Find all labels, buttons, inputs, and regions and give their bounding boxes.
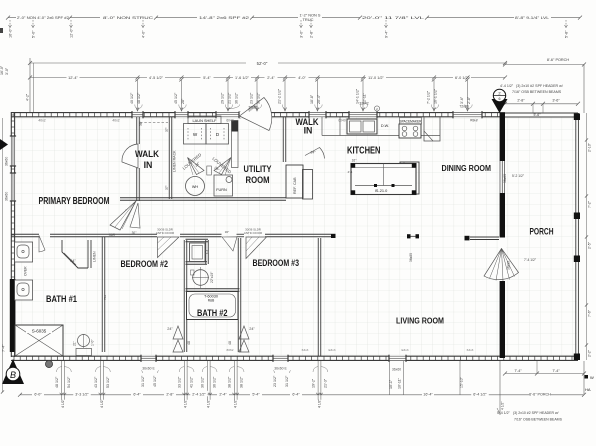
bath2 tub surround xyxy=(186,288,240,290)
kitchen counter top run xyxy=(322,135,440,137)
svg-text:45 1/2": 45 1/2" xyxy=(153,375,157,387)
window in right wall 36x60 xyxy=(499,161,506,193)
svg-text:36 1/2": 36 1/2" xyxy=(213,376,217,388)
wall studs top xyxy=(14,113,498,117)
svg-text:8062: 8062 xyxy=(227,348,234,352)
svg-text:21 1/2": 21 1/2" xyxy=(228,92,232,104)
left arrow marker xyxy=(0,139,8,150)
wall: bedroom3 / living room xyxy=(317,238,319,356)
svg-text:6'-4": 6'-4" xyxy=(292,392,300,396)
svg-text:PORCH: PORCH xyxy=(530,227,554,237)
svg-text:4'-0": 4'-0" xyxy=(142,30,146,38)
svg-text:2'-8": 2'-8" xyxy=(517,99,525,103)
dim row2: 52ft overall xyxy=(30,62,505,64)
svg-text:6040: 6040 xyxy=(226,119,234,123)
svg-text:6'-6" PORCH: 6'-6" PORCH xyxy=(529,392,551,396)
svg-text:2'-4": 2'-4" xyxy=(267,76,275,80)
window top wall 216-240 xyxy=(216,112,240,118)
svg-text:5'-4": 5'-4" xyxy=(252,392,260,396)
svg-text:4 1/2": 4 1/2" xyxy=(207,398,211,408)
dim row1: header sizes xyxy=(8,17,580,19)
bath1 shower S-6035 xyxy=(15,325,63,356)
kitchen sink xyxy=(347,119,377,134)
svg-text:63x3: 63x3 xyxy=(302,348,309,352)
svg-text:21": 21" xyxy=(73,340,77,346)
svg-text:2'-8": 2'-8" xyxy=(310,30,314,38)
svg-text:29 1/2": 29 1/2" xyxy=(220,92,224,104)
section marker B (bottom left) xyxy=(2,359,24,384)
svg-text:IN: IN xyxy=(144,160,153,170)
svg-text:2'-8": 2'-8" xyxy=(166,392,174,396)
svg-text:(3) 2x10 #2 SPF HEADER w/: (3) 2x10 #2 SPF HEADER w/ xyxy=(516,84,563,88)
svg-text:2'-10": 2'-10" xyxy=(588,142,592,152)
svg-text:72x80: 72x80 xyxy=(459,105,468,109)
svg-text:6: 6 xyxy=(499,97,501,101)
svg-text:REF. CAB: REF. CAB xyxy=(293,177,297,194)
wall: bottom exterior xyxy=(11,356,578,360)
svg-text:E3x3: E3x3 xyxy=(401,348,408,352)
svg-text:S-6035: S-6035 xyxy=(32,329,47,334)
furnace xyxy=(214,175,233,196)
beam blocks at living/dining xyxy=(407,234,411,238)
kitchen island IS-21.0 xyxy=(351,164,416,195)
svg-text:2'-8": 2'-8" xyxy=(467,96,471,104)
wall: bedroom2 / bath2 xyxy=(183,240,185,352)
svg-text:KITCHEN: KITCHEN xyxy=(347,146,381,157)
svg-text:7'-4 1/2": 7'-4 1/2" xyxy=(524,258,537,262)
svg-text:36x60: 36x60 xyxy=(5,192,9,201)
svg-text:21'-3": 21'-3" xyxy=(324,378,328,388)
svg-text:12'-4": 12'-4" xyxy=(68,76,78,80)
svg-text:36x60: 36x60 xyxy=(392,368,401,372)
svg-text:37": 37" xyxy=(165,185,169,190)
top extension lines xyxy=(137,80,139,111)
ref cab xyxy=(286,165,303,198)
svg-text:7'-4": 7'-4" xyxy=(514,369,522,373)
door swing: walk-in closet 30in xyxy=(122,144,138,168)
svg-text:21'-2 1/2": 21'-2 1/2" xyxy=(277,88,281,104)
bottom extension pairs xyxy=(61,361,63,400)
bath1 vanity sinks xyxy=(15,242,33,262)
svg-text:LINEN RACK: LINEN RACK xyxy=(173,150,177,172)
door opening right wall to porch xyxy=(499,238,506,282)
svg-text:IS-21.0: IS-21.0 xyxy=(375,188,388,193)
svg-text:BEDROOM #3: BEDROOM #3 xyxy=(253,258,300,268)
svg-text:2'-4": 2'-4" xyxy=(219,392,227,396)
bottom main dim line xyxy=(20,394,584,396)
svg-text:4'-2": 4'-2" xyxy=(26,93,30,101)
svg-text:38 1/2": 38 1/2" xyxy=(228,376,232,388)
svg-text:3'-3 1/2": 3'-3 1/2" xyxy=(75,392,89,396)
window bottom wall 389-406 xyxy=(389,355,406,361)
svg-text:16'-1 1/2": 16'-1 1/2" xyxy=(434,88,438,104)
svg-text:7/16" OSB BETWEEN BEAMS: 7/16" OSB BETWEEN BEAMS xyxy=(514,418,563,422)
svg-text:WALK: WALK xyxy=(135,149,160,159)
svg-text:8'-0" NON STRUC: 8'-0" NON STRUC xyxy=(103,16,154,20)
svg-text:28": 28" xyxy=(181,98,185,104)
wall: porch top beam xyxy=(505,112,578,114)
svg-text:52'-0": 52'-0" xyxy=(257,61,268,66)
window top wall 132-143 xyxy=(132,112,143,118)
window top wall 453-482 xyxy=(453,112,482,118)
svg-text:7'-6": 7'-6" xyxy=(588,309,592,317)
svg-text:24": 24" xyxy=(70,259,76,263)
svg-text:24": 24" xyxy=(311,151,317,155)
wall stub to right wall with cap xyxy=(470,236,499,238)
wall: below walk-in & utility (hall north wall) xyxy=(120,197,286,199)
svg-text:11'-0 1/2": 11'-0 1/2" xyxy=(368,76,384,80)
svg-text:24": 24" xyxy=(167,327,173,331)
svg-text:ANTIC DOOR: ANTIC DOOR xyxy=(156,231,174,235)
window top wall 175-188 xyxy=(175,112,188,118)
wall: primary bedroom / walk-in closet xyxy=(136,117,138,144)
svg-text:3'-0": 3'-0" xyxy=(300,30,304,38)
window bottom wall 141-156 xyxy=(141,355,156,361)
svg-text:36x80: 36x80 xyxy=(507,261,511,270)
svg-text:4 1/2": 4 1/2" xyxy=(234,398,238,408)
svg-text:10'-1": 10'-1" xyxy=(389,379,393,389)
svg-text:R&B: R&B xyxy=(208,299,215,303)
floor grid xyxy=(13,117,577,356)
slider door bedroom3 xyxy=(246,237,267,259)
svg-text:HA: HA xyxy=(585,387,591,392)
svg-text:15'-10": 15'-10" xyxy=(460,376,464,388)
water heater xyxy=(186,177,205,196)
wall: walk-in / laundry xyxy=(168,117,170,199)
walk-in shelf (dashed) xyxy=(140,122,168,124)
svg-text:W: W xyxy=(193,132,198,137)
svg-text:10'-11": 10'-11" xyxy=(398,377,402,389)
cabinet next to ref cab xyxy=(303,170,313,200)
svg-text:31 1/2": 31 1/2" xyxy=(141,375,145,387)
svg-text:40x2: 40x2 xyxy=(38,119,45,123)
svg-text:(3) 2x10 #2 SPF HEADER w/: (3) 2x10 #2 SPF HEADER w/ xyxy=(513,411,559,415)
svg-text:WH: WH xyxy=(192,185,199,189)
bath2 tub T-60030 xyxy=(187,292,239,320)
door swing: living room to porch xyxy=(484,249,519,280)
svg-text:3'-6": 3'-6" xyxy=(460,96,464,104)
svg-text:36x80: 36x80 xyxy=(248,106,257,110)
svg-text:33 1/2": 33 1/2" xyxy=(178,376,182,388)
svg-text:31 1/2": 31 1/2" xyxy=(285,375,289,387)
svg-text:2'-2": 2'-2" xyxy=(588,349,592,357)
wall: top exterior xyxy=(11,113,505,117)
slider door bedroom2 xyxy=(158,237,180,258)
svg-text:TRUC: TRUC xyxy=(303,18,315,22)
porch bottom dim 7-4/7-4 xyxy=(505,373,584,375)
svg-text:LIVING ROOM: LIVING ROOM xyxy=(396,316,444,326)
door: rear exterior door with outside swing xyxy=(239,111,267,117)
dim: 8-6 porch top xyxy=(505,64,584,66)
laundry: shelf + washer dryer xyxy=(188,116,221,124)
bottom living room window pair xyxy=(389,361,391,395)
svg-text:4'-0": 4'-0" xyxy=(298,76,306,80)
svg-text:4 1/2": 4 1/2" xyxy=(501,401,505,410)
svg-text:37": 37" xyxy=(165,127,169,132)
spacemaker + range xyxy=(400,118,422,125)
laundry cabinet right xyxy=(232,121,239,168)
svg-text:4'-4 1/2": 4'-4 1/2" xyxy=(500,84,514,88)
bath2 toilet xyxy=(190,243,206,262)
wall: bath2 / bedroom3 xyxy=(237,238,239,352)
svg-text:14'-8" 2x6 SPF #2: 14'-8" 2x6 SPF #2 xyxy=(199,16,249,20)
right margin truncated text xyxy=(585,375,589,379)
svg-text:2'-4 1/2": 2'-4 1/2" xyxy=(192,392,206,396)
svg-text:43 1/2": 43 1/2" xyxy=(94,376,98,388)
svg-text:48 1/2": 48 1/2" xyxy=(55,376,59,388)
svg-text:8'-6" PORCH: 8'-6" PORCH xyxy=(547,58,570,62)
window top wall 349-377 xyxy=(349,112,377,118)
left top tiny marks xyxy=(0,28,3,33)
svg-text:DINING ROOM: DINING ROOM xyxy=(442,163,492,173)
svg-text:19'-2": 19'-2" xyxy=(311,378,315,388)
svg-text:ANTIC DOOR: ANTIC DOOR xyxy=(244,231,262,235)
svg-text:78d: 78d xyxy=(103,295,107,300)
wall: left exterior shear (solid black) xyxy=(10,279,16,352)
svg-text:7/16" OSB BETWEEN BEAMS: 7/16" OSB BETWEEN BEAMS xyxy=(512,90,562,94)
svg-text:BEDROOM #2: BEDROOM #2 xyxy=(121,259,169,269)
svg-text:6'-0": 6'-0" xyxy=(34,392,42,396)
hall south walls at y 235 xyxy=(11,233,39,235)
svg-text:36x60 E: 36x60 E xyxy=(274,366,287,370)
door: bath2 from hall xyxy=(222,237,237,251)
svg-text:BATH #2: BATH #2 xyxy=(197,308,228,318)
wall: porch right edge xyxy=(575,113,577,360)
bath1 toilet xyxy=(78,335,90,347)
svg-text:5'-6": 5'-6" xyxy=(534,113,542,117)
svg-text:16'-0": 16'-0" xyxy=(0,65,4,75)
section marker A (top) xyxy=(492,99,508,113)
svg-text:16'-0": 16'-0" xyxy=(9,28,13,38)
svg-text:LAUN SHELF: LAUN SHELF xyxy=(193,118,218,123)
svg-text:20'-0" 11 7/8" LVL: 20'-0" 11 7/8" LVL xyxy=(362,16,424,20)
svg-text:ROOM: ROOM xyxy=(246,175,270,185)
svg-text:6'-4": 6'-4" xyxy=(133,392,141,396)
svg-text:9'-4": 9'-4" xyxy=(385,30,389,38)
svg-text:1'-6 1/2": 1'-6 1/2" xyxy=(235,76,250,80)
svg-text:30 1/2": 30 1/2" xyxy=(201,376,205,388)
svg-text:4'-1: 4'-1 xyxy=(348,170,353,174)
window left wall lower 36x60 xyxy=(11,173,16,201)
svg-text:OVER: OVER xyxy=(24,266,28,276)
porch top dims 2-8 / 3-6 xyxy=(505,103,578,105)
svg-text:45 1/2": 45 1/2" xyxy=(174,92,178,104)
svg-text:3'-0": 3'-0" xyxy=(5,67,9,75)
dim row3: segment dims xyxy=(30,77,505,79)
svg-text:IN: IN xyxy=(304,126,313,136)
svg-text:36 1/2": 36 1/2" xyxy=(235,92,239,104)
bath2 north inner walls xyxy=(186,238,209,240)
svg-text:53 1/2": 53 1/2" xyxy=(106,376,110,388)
wall: utility / kitchen walk-in xyxy=(282,117,284,162)
svg-text:4 1/2": 4 1/2" xyxy=(317,398,321,408)
svg-text:BATH #1: BATH #1 xyxy=(46,294,77,304)
door swing bath1 from primary xyxy=(39,236,45,253)
svg-text:30": 30" xyxy=(132,231,137,235)
svg-text:36": 36" xyxy=(139,121,143,126)
pantry cabinet right of kitchen xyxy=(400,162,419,194)
svg-text:23 1/2": 23 1/2" xyxy=(273,375,277,387)
window top wall 309-326 xyxy=(309,112,326,118)
svg-text:36x60 E: 36x60 E xyxy=(142,366,155,370)
svg-text:4'-5 1/2": 4'-5 1/2" xyxy=(149,76,164,80)
window left wall upper 36x60 xyxy=(11,136,16,166)
svg-text:24": 24" xyxy=(249,327,255,331)
left margin line + labels xyxy=(2,118,4,392)
svg-text:54 1/2": 54 1/2" xyxy=(67,376,71,388)
svg-text:48: 48 xyxy=(187,341,191,345)
louvered bifold doors xyxy=(188,158,205,175)
svg-text:36x60: 36x60 xyxy=(5,157,9,166)
bath1 corner linen + door xyxy=(62,240,88,268)
svg-text:5'-8": 5'-8" xyxy=(565,30,569,38)
svg-text:36x60: 36x60 xyxy=(503,174,507,183)
svg-text:8'-8" 9-1/4" LVL: 8'-8" 9-1/4" LVL xyxy=(515,16,549,20)
svg-text:LINEN: LINEN xyxy=(93,251,97,262)
wall: right main shear wall (solid black) xyxy=(500,113,505,358)
right edge dim chain xyxy=(586,113,588,360)
kitchen walk-in door (angled) xyxy=(305,148,325,159)
svg-text:B: B xyxy=(10,370,16,380)
svg-text:2'-5": 2'-5" xyxy=(588,241,592,249)
svg-text:2'-0" NON 4'-0" 2x6 SPF #2: 2'-0" NON 4'-0" 2x6 SPF #2 xyxy=(17,16,69,20)
wall: left exterior xyxy=(11,112,14,357)
svg-text:36x80: 36x80 xyxy=(409,253,413,262)
svg-text:48: 48 xyxy=(228,341,232,345)
corner cabinet xyxy=(424,117,440,141)
svg-text:4 1/2": 4 1/2" xyxy=(61,398,65,408)
svg-text:W: W xyxy=(590,375,594,380)
svg-text:3'-6": 3'-6" xyxy=(552,99,560,103)
svg-text:41 1/2": 41 1/2" xyxy=(190,376,194,388)
svg-text:5'-2 1/2": 5'-2 1/2" xyxy=(512,174,525,178)
bifold closet doors bedroom2/3 xyxy=(173,326,183,352)
svg-text:31 1/2": 31 1/2" xyxy=(257,92,261,104)
svg-text:20'-4": 20'-4" xyxy=(317,94,321,104)
svg-text:FURN: FURN xyxy=(216,188,227,192)
svg-text:36R: 36R xyxy=(109,233,116,237)
dim row1 drops xyxy=(9,20,11,26)
svg-text:22"x19": 22"x19" xyxy=(210,271,214,283)
svg-text:63x3: 63x3 xyxy=(467,348,474,352)
svg-text:7'-4": 7'-4" xyxy=(552,369,560,373)
svg-text:D.W.: D.W. xyxy=(381,124,389,128)
svg-text:5'-0": 5'-0" xyxy=(32,30,36,38)
svg-text:7'-2 1/2": 7'-2 1/2" xyxy=(426,90,430,104)
svg-text:E3x3: E3x3 xyxy=(328,348,335,352)
svg-text:40x2: 40x2 xyxy=(112,119,119,123)
svg-text:6'-4 1/2": 6'-4 1/2" xyxy=(473,392,487,396)
svg-text:12'-0": 12'-0" xyxy=(70,28,74,38)
bath2 sink pedestal xyxy=(193,270,209,286)
svg-text:SPACEMAKER: SPACEMAKER xyxy=(400,119,423,123)
window bottom wall 273-288 xyxy=(273,355,288,361)
wall: bath1 / bedroom2 xyxy=(101,237,103,352)
wall end cap black xyxy=(331,234,336,238)
svg-text:32x42: 32x42 xyxy=(359,102,368,106)
svg-text:7'-2": 7'-2" xyxy=(588,200,592,208)
svg-text:4 1/2": 4 1/2" xyxy=(100,398,104,408)
svg-text:PRIMARY BEDROOM: PRIMARY BEDROOM xyxy=(39,196,110,207)
svg-text:1'-0": 1'-0" xyxy=(91,339,95,346)
svg-text:48 1/2": 48 1/2" xyxy=(137,92,141,104)
porch posts xyxy=(574,114,580,121)
circled symbols xyxy=(45,360,52,367)
svg-text:16": 16" xyxy=(352,159,357,163)
svg-text:16'-4": 16'-4" xyxy=(423,392,433,396)
svg-text:30": 30" xyxy=(225,230,229,234)
door swing: hall west xyxy=(110,201,136,230)
svg-text:4 1/2": 4 1/2" xyxy=(184,398,188,408)
svg-text:23 1/2": 23 1/2" xyxy=(249,92,253,104)
svg-text:UTILITY: UTILITY xyxy=(244,164,272,174)
svg-text:KIA-2: KIA-2 xyxy=(470,118,478,122)
svg-text:6040: 6040 xyxy=(338,119,346,123)
svg-text:40 1/2": 40 1/2" xyxy=(130,92,134,104)
svg-text:38 1/2": 38 1/2" xyxy=(240,376,244,388)
svg-text:5'-4": 5'-4" xyxy=(203,76,211,80)
svg-text:7'-4": 7'-4" xyxy=(2,344,6,352)
svg-text:18'-8": 18'-8" xyxy=(310,94,314,104)
